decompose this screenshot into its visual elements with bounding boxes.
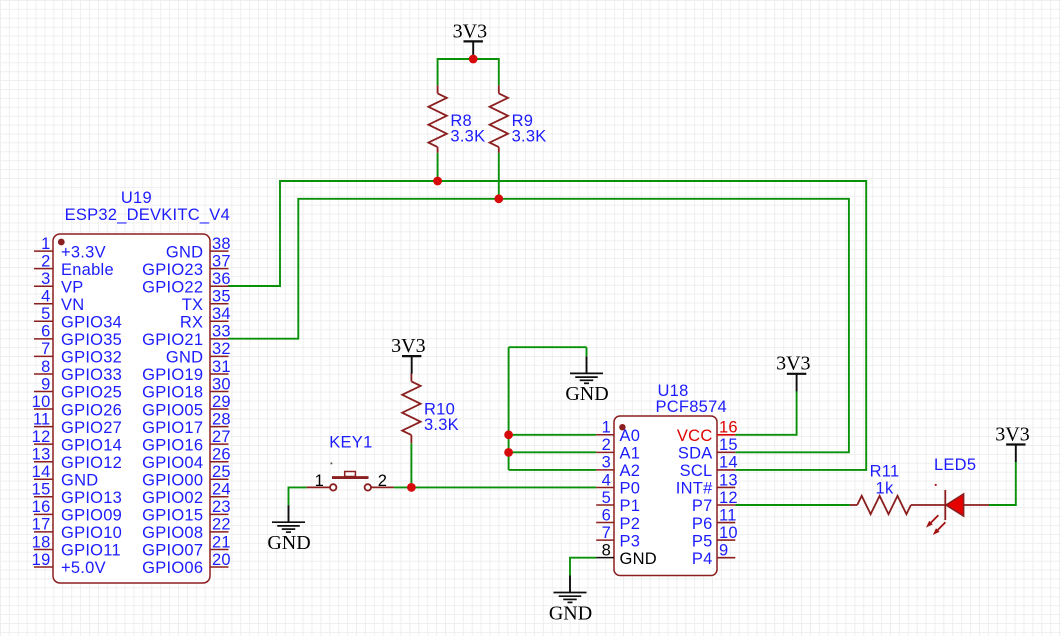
svg-text:1k: 1k (876, 479, 894, 497)
svg-text:LED5: LED5 (934, 456, 976, 474)
svg-text:GPIO00: GPIO00 (142, 471, 203, 489)
svg-text:8: 8 (41, 358, 50, 376)
svg-text:2: 2 (602, 436, 611, 454)
svg-text:GPIO23: GPIO23 (142, 261, 203, 279)
svg-text:R11: R11 (870, 463, 900, 481)
svg-text:3.3K: 3.3K (424, 416, 459, 434)
svg-text:28: 28 (212, 410, 231, 428)
svg-text:TX: TX (182, 296, 204, 314)
svg-text:22: 22 (212, 516, 231, 534)
svg-text:GPIO35: GPIO35 (61, 331, 122, 349)
svg-text:34: 34 (212, 305, 231, 323)
svg-text:31: 31 (212, 358, 231, 376)
svg-text:KEY1: KEY1 (329, 434, 372, 452)
svg-text:8: 8 (602, 541, 611, 559)
svg-text:18: 18 (32, 533, 51, 551)
svg-text:ESP32_DEVKITC_V4: ESP32_DEVKITC_V4 (65, 206, 230, 224)
svg-text:19: 19 (32, 551, 51, 569)
svg-text:29: 29 (212, 393, 231, 411)
svg-text:P4: P4 (692, 550, 713, 568)
svg-text:25: 25 (212, 463, 231, 481)
svg-text:SCL: SCL (680, 462, 713, 480)
svg-text:17: 17 (32, 516, 51, 534)
svg-text:A1: A1 (620, 445, 641, 463)
svg-text:3V3: 3V3 (776, 353, 810, 375)
svg-text:5: 5 (602, 489, 611, 507)
svg-text:27: 27 (212, 428, 231, 446)
svg-text:11: 11 (719, 506, 737, 524)
svg-text:GPIO19: GPIO19 (142, 366, 203, 384)
svg-text:GPIO32: GPIO32 (61, 349, 122, 367)
svg-text:9: 9 (719, 541, 728, 559)
svg-text:+5.0V: +5.0V (61, 559, 106, 577)
svg-text:GND: GND (549, 602, 592, 624)
svg-text:RX: RX (180, 314, 203, 332)
svg-text:SDA: SDA (678, 445, 713, 463)
svg-text:GND: GND (166, 349, 203, 367)
svg-text:3V3: 3V3 (391, 335, 425, 357)
svg-text:6: 6 (41, 323, 50, 341)
svg-text:P1: P1 (620, 497, 641, 515)
svg-text:P0: P0 (620, 480, 641, 498)
svg-text:7: 7 (41, 340, 50, 358)
svg-text:U19: U19 (121, 189, 152, 207)
svg-text:12: 12 (719, 489, 738, 507)
svg-text:16: 16 (719, 419, 738, 437)
svg-text:GPIO12: GPIO12 (61, 454, 122, 472)
svg-text:GPIO33: GPIO33 (61, 366, 122, 384)
svg-text:GPIO08: GPIO08 (142, 524, 203, 542)
svg-text:VP: VP (61, 278, 84, 296)
svg-text:1: 1 (602, 419, 611, 437)
svg-text:2: 2 (41, 252, 50, 270)
svg-text:4: 4 (41, 288, 50, 306)
svg-text:VN: VN (61, 296, 84, 314)
svg-text:GPIO09: GPIO09 (61, 507, 122, 525)
svg-text:12: 12 (32, 428, 51, 446)
svg-text:33: 33 (212, 323, 231, 341)
svg-text:3: 3 (602, 454, 611, 472)
svg-text:16: 16 (32, 498, 51, 516)
svg-text:7: 7 (602, 524, 611, 542)
svg-text:13: 13 (32, 446, 51, 464)
svg-text:GPIO10: GPIO10 (61, 524, 122, 542)
svg-text:6: 6 (602, 506, 611, 524)
svg-text:1: 1 (315, 472, 324, 490)
svg-text:10: 10 (719, 524, 738, 542)
svg-text:GPIO18: GPIO18 (142, 384, 203, 402)
svg-text:35: 35 (212, 288, 231, 306)
svg-text:GND: GND (267, 532, 310, 554)
svg-text:24: 24 (212, 481, 231, 499)
svg-text:23: 23 (212, 498, 231, 516)
svg-text:GPIO16: GPIO16 (142, 436, 203, 454)
svg-text:P5: P5 (692, 532, 713, 550)
svg-text:P6: P6 (692, 515, 713, 533)
svg-text:2: 2 (378, 472, 387, 490)
svg-text:GPIO17: GPIO17 (142, 419, 203, 437)
svg-text:P2: P2 (620, 515, 641, 533)
svg-text:GND: GND (565, 383, 608, 405)
svg-text:15: 15 (32, 481, 51, 499)
svg-text:GPIO22: GPIO22 (142, 278, 203, 296)
svg-text:1: 1 (41, 235, 50, 253)
svg-text:26: 26 (212, 446, 231, 464)
svg-text:10: 10 (32, 393, 51, 411)
svg-text:A2: A2 (620, 462, 641, 480)
svg-text:GPIO15: GPIO15 (142, 507, 203, 525)
svg-text:GPIO02: GPIO02 (142, 489, 203, 507)
svg-text:21: 21 (212, 533, 231, 551)
svg-text:GPIO13: GPIO13 (61, 489, 122, 507)
svg-text:Enable: Enable (61, 261, 114, 279)
svg-text:P3: P3 (620, 532, 641, 550)
svg-text:38: 38 (212, 235, 231, 253)
svg-text:GPIO26: GPIO26 (61, 401, 122, 419)
svg-text:GPIO07: GPIO07 (142, 542, 203, 560)
svg-text:VCC: VCC (677, 427, 713, 445)
svg-text:GND: GND (620, 550, 657, 568)
svg-text:30: 30 (212, 375, 231, 393)
svg-text:GPIO05: GPIO05 (142, 401, 203, 419)
svg-text:3: 3 (41, 270, 50, 288)
svg-text:13: 13 (719, 471, 738, 489)
svg-text:5: 5 (41, 305, 50, 323)
svg-text:9: 9 (41, 375, 50, 393)
svg-text:14: 14 (719, 454, 738, 472)
svg-text:GPIO14: GPIO14 (61, 436, 122, 454)
svg-text:20: 20 (212, 551, 231, 569)
svg-text:3V3: 3V3 (453, 20, 487, 42)
svg-text:P7: P7 (692, 497, 713, 515)
svg-text:4: 4 (602, 471, 611, 489)
svg-text:36: 36 (212, 270, 231, 288)
svg-text:37: 37 (212, 252, 231, 270)
svg-text:11: 11 (33, 410, 51, 428)
svg-text:3.3K: 3.3K (450, 127, 485, 145)
svg-text:GND: GND (61, 471, 98, 489)
svg-text:GPIO04: GPIO04 (142, 454, 203, 472)
svg-text:GPIO25: GPIO25 (61, 384, 122, 402)
svg-text:PCF8574: PCF8574 (656, 398, 727, 416)
svg-text:GND: GND (166, 243, 203, 261)
svg-text:+3.3V: +3.3V (61, 243, 106, 261)
svg-text:INT#: INT# (676, 480, 713, 498)
svg-text:3.3K: 3.3K (512, 127, 547, 145)
svg-text:GPIO06: GPIO06 (142, 559, 203, 577)
svg-text:15: 15 (719, 436, 738, 454)
svg-text:GPIO11: GPIO11 (61, 542, 121, 560)
svg-text:32: 32 (212, 340, 231, 358)
svg-text:3V3: 3V3 (995, 423, 1029, 445)
svg-text:14: 14 (32, 463, 51, 481)
svg-text:GPIO34: GPIO34 (61, 314, 122, 332)
svg-text:GPIO21: GPIO21 (142, 331, 203, 349)
svg-text:GPIO27: GPIO27 (61, 419, 122, 437)
